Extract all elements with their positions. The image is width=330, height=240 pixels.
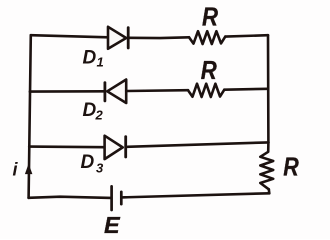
svg-text:i: i <box>13 160 19 180</box>
svg-text:R: R <box>201 55 217 85</box>
svg-text:D: D <box>81 152 95 173</box>
svg-text:2: 2 <box>95 108 104 123</box>
svg-text:D: D <box>83 48 97 69</box>
svg-text:1: 1 <box>97 54 104 69</box>
svg-text:3: 3 <box>96 161 104 176</box>
svg-text:E: E <box>104 212 121 238</box>
svg-text:R: R <box>202 1 218 31</box>
svg-text:R: R <box>283 151 299 181</box>
svg-text:D: D <box>83 100 97 121</box>
